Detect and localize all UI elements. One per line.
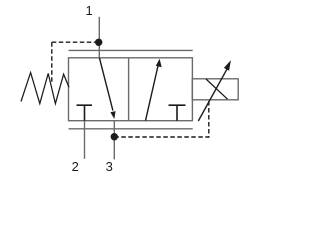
right position flow path <box>146 65 159 121</box>
port 3 lead <box>113 121 115 160</box>
port 1 lead <box>98 17 100 58</box>
svg-text:2: 2 <box>72 159 79 174</box>
svg-text:1: 1 <box>86 3 93 18</box>
top rail <box>69 49 193 51</box>
bottom rail <box>69 128 193 130</box>
blocked port 2 symbol <box>77 105 93 121</box>
right position blocked port symbol <box>169 105 186 121</box>
junction dot node 3 <box>111 133 118 140</box>
pilot line dashed left <box>52 42 99 83</box>
port 2 lead <box>84 121 86 159</box>
valve body <box>69 58 193 121</box>
proportional arrowhead <box>224 60 231 71</box>
pilot line dashed right <box>114 100 209 137</box>
junction dot node 1 <box>95 39 102 46</box>
solenoid diagonal <box>206 79 228 99</box>
position divider <box>128 58 130 121</box>
left position flow path 1 to 3 <box>99 58 113 111</box>
right position flow arrowhead <box>156 59 162 67</box>
spring <box>21 73 69 104</box>
proportional arrow through solenoid <box>198 67 228 121</box>
solenoid box <box>192 79 238 100</box>
svg-text:3: 3 <box>106 159 113 174</box>
left position flow arrowhead <box>110 111 115 119</box>
